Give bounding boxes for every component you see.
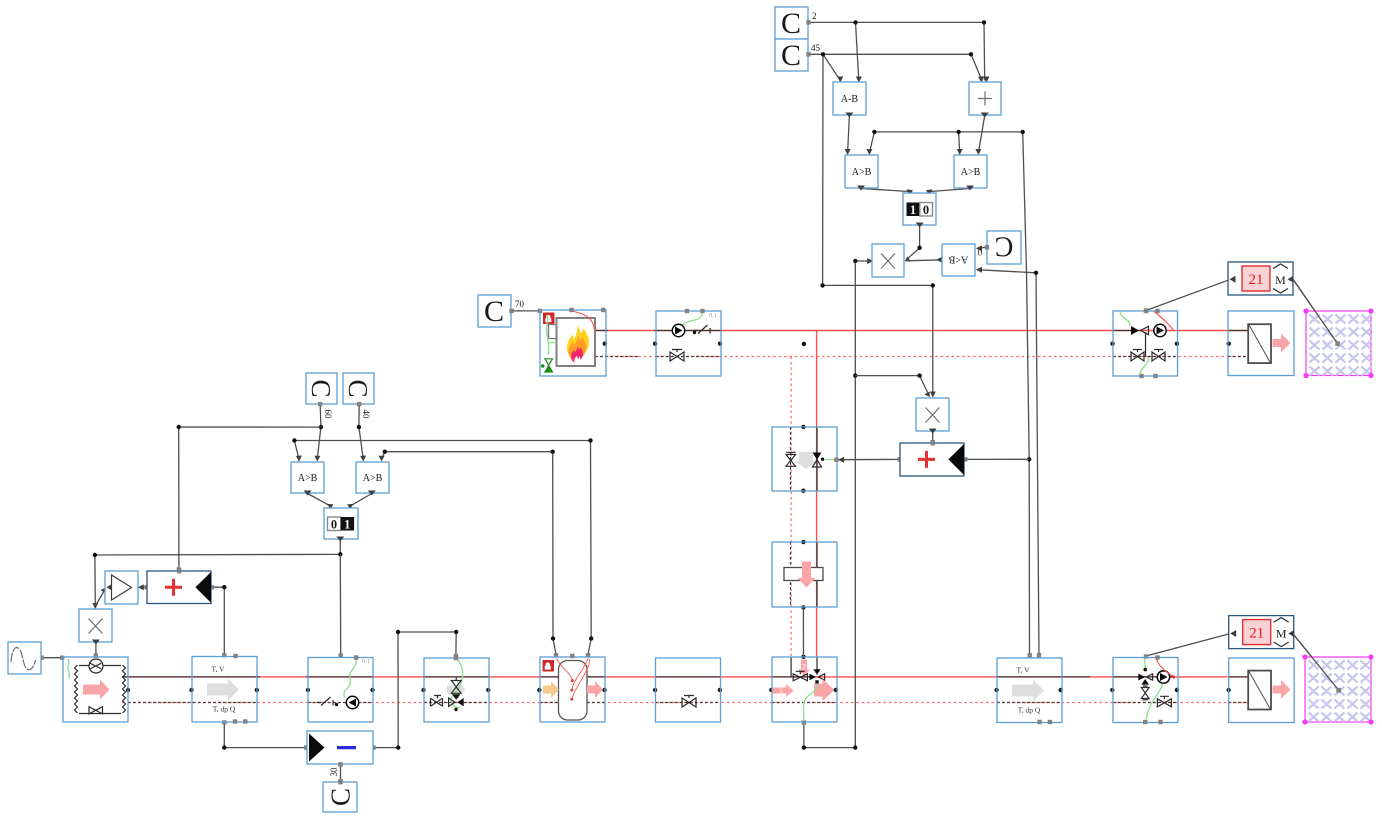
node hydraulic port dots bottom row bbox=[126, 688, 1231, 692]
subtract block minus with input arrow bbox=[307, 731, 373, 767]
wire multiplier-top left input from mix-c riser bbox=[855, 260, 871, 262]
svg-text:1: 1 bbox=[344, 517, 350, 531]
wire black overlay supply mix1 bbox=[1112, 330, 1141, 332]
wire A>B-left2 output to switch 0|1 bbox=[308, 494, 330, 506]
multiplier X left bbox=[79, 609, 112, 645]
wire black dashed return overlay TV1 span bbox=[128, 702, 258, 704]
wire black dashed vertical overlay pumpv bbox=[790, 542, 792, 607]
svg-text:0: 0 bbox=[977, 247, 982, 257]
wire A>B-left output to switch 1|0 bbox=[861, 189, 909, 192]
svg-text:C: C bbox=[781, 39, 801, 72]
svg-text:C: C bbox=[781, 7, 801, 40]
wire supply pipe vertical drop (x=816.6) bbox=[816, 331, 818, 658]
node hydraulic port dots top row bbox=[603, 342, 1231, 346]
constant C2 bbox=[775, 7, 817, 40]
wire tank sensor1 riser to A>B-right2 input B bbox=[382, 452, 554, 639]
wire return pipe top row (dashed) bbox=[595, 356, 1248, 358]
wire plus-left output to gain bbox=[139, 586, 147, 588]
room block hatch1 bbox=[1294, 280, 1374, 378]
svg-text:0.1: 0.1 bbox=[709, 312, 717, 319]
wire black dashed return overlay radiator1 bbox=[1228, 356, 1249, 358]
wire switch 0|1 output down and left bbox=[95, 540, 340, 608]
wire plus-top output to A>B-right input B bbox=[978, 116, 984, 154]
pump rect block pumpv bbox=[772, 542, 837, 607]
comparator A>B right bbox=[954, 155, 987, 191]
svg-text:1: 1 bbox=[779, 687, 783, 695]
constant C40 rotated bbox=[343, 373, 374, 419]
wire black dashed return overlay valve2 bbox=[655, 702, 721, 704]
wire C0 to A<B input bbox=[977, 247, 986, 248]
wire room2 sensor to thermostat2 right bbox=[1294, 635, 1339, 691]
svg-text:T, dp Q: T, dp Q bbox=[1018, 706, 1041, 715]
svg-text:C: C bbox=[306, 379, 336, 397]
svg-text:2: 2 bbox=[802, 662, 806, 671]
wire black overlay supply radiator1 bbox=[1228, 330, 1249, 332]
wire black dashed return overlay TV2 bbox=[997, 702, 1062, 704]
wire black dashed return overlay valve1 bbox=[424, 702, 489, 704]
svg-text:21: 21 bbox=[1249, 626, 1264, 642]
svg-text:A>B: A>B bbox=[363, 473, 383, 484]
wire black dashed return overlay mix1 bbox=[1113, 356, 1177, 358]
wire branch to A>B-right input A bbox=[959, 132, 960, 153]
svg-text:0: 0 bbox=[923, 203, 929, 217]
subtract block A-B bbox=[833, 82, 866, 118]
wire TV1 sensor to plus-left right input bbox=[212, 587, 225, 655]
room block hatch2 bbox=[1294, 635, 1374, 725]
wire plus-main right input from TV2 riser bbox=[965, 458, 1029, 460]
wire black overlay supply valve1 bbox=[423, 676, 490, 678]
wire room1 sensor to thermostat1 right bbox=[1294, 280, 1338, 344]
wire tank sensor2 riser to A>B-left2 input A bbox=[294, 441, 591, 639]
wire minus-block right output to valve1 top bbox=[374, 632, 457, 748]
wire black solid vertical mix-c return stub bbox=[790, 658, 792, 678]
wire black overlay supply radiator2 bbox=[1228, 676, 1249, 678]
svg-text:C: C bbox=[343, 379, 373, 397]
svg-text:C: C bbox=[326, 788, 356, 806]
wire long vertical from y=131.9 down to TV2 top port 1 bbox=[1023, 132, 1030, 656]
wire C60 output down bbox=[317, 405, 321, 460]
boiler block bbox=[540, 308, 606, 376]
comparator A>B left2 bbox=[291, 462, 324, 496]
wire multiplier-left output to heat pump top bbox=[95, 643, 97, 656]
wire black dashed return overlay pump1 bbox=[308, 702, 373, 704]
wire supply pipe bottom row bbox=[122, 676, 1248, 678]
svg-text:A<B: A<B bbox=[948, 254, 968, 265]
wire riser vertical x=855.3 from mix-c bottom bbox=[804, 261, 855, 748]
constant C45 bbox=[775, 39, 821, 72]
wire multiplier-low output to plus-main top bbox=[932, 432, 934, 443]
gain triangle block bbox=[105, 571, 138, 604]
wire branch riser to multiplier-low bbox=[855, 376, 929, 395]
wire C45 long branch down to multiplier-low bbox=[823, 54, 933, 395]
svg-text:45: 45 bbox=[811, 43, 821, 53]
pump block valve3 bbox=[656, 309, 721, 376]
wire branch to gain input bbox=[95, 589, 105, 607]
svg-text:C: C bbox=[995, 231, 1014, 262]
wire A<B output to multiplier-top input bbox=[906, 260, 943, 261]
comparator A>B left bbox=[845, 155, 878, 191]
wire A-B output to A>B-left input A bbox=[848, 116, 850, 154]
wire plus-main left output to checkv right port bbox=[838, 458, 900, 460]
svg-text:21: 21 bbox=[1249, 272, 1264, 288]
wire black overlay supply mix2 left bbox=[1112, 676, 1174, 678]
svg-text:0: 0 bbox=[331, 517, 337, 531]
valve block valve1 (diverter with bypass) bbox=[424, 656, 489, 722]
wire sine to heat pump left bbox=[42, 657, 63, 659]
wire TV2 sensor 2 vertical up to A<B input bbox=[977, 270, 1039, 656]
wire black dashed return overlay mix2 bbox=[1113, 702, 1177, 704]
valve block valve2 bbox=[656, 658, 721, 722]
comparator A<B flipped bbox=[942, 244, 975, 276]
wire black overlay supply boiler exit bbox=[594, 330, 608, 332]
add block plus-main with input arrow bbox=[900, 441, 964, 476]
measurement block TV1 bbox=[192, 654, 257, 724]
svg-text:70: 70 bbox=[515, 299, 525, 309]
wire mix1 top port to thermostat1 bbox=[1146, 279, 1231, 310]
wire black overlay supply valve2 bbox=[655, 676, 721, 678]
svg-text:60: 60 bbox=[323, 410, 333, 420]
wire C70 to boiler top bbox=[512, 310, 540, 312]
wire branch to A>B-left input B bbox=[869, 132, 874, 153]
wire return pipe bottom row bbox=[122, 702, 1248, 704]
svg-text:M: M bbox=[1276, 627, 1287, 641]
wire black dashed return overlay boiler exit bbox=[595, 356, 640, 358]
svg-text:T, V: T, V bbox=[211, 665, 225, 674]
wire A>B-right output to switch 1|0 bbox=[930, 189, 970, 192]
svg-text:C: C bbox=[484, 295, 504, 328]
wire sensor bus horizontal y=131.9 bbox=[874, 131, 1022, 133]
add block plus-left with input arrow bbox=[147, 569, 211, 604]
wire black overlay supply valve3 bbox=[654, 330, 722, 332]
wire switch 1|0 output down bbox=[907, 226, 920, 260]
wire black overlay supply heat-pump to TV1 bbox=[122, 676, 260, 678]
wire C60 branch to plus-left top bbox=[179, 427, 321, 570]
wire black overlay supply mix-c bbox=[771, 676, 810, 678]
radiator block rad1 bbox=[1228, 311, 1294, 376]
wire black dashed vertical overlay checkv bbox=[790, 427, 792, 491]
pump block pump1 bbox=[308, 655, 373, 722]
thermostat 21M room2 bbox=[1229, 616, 1295, 649]
wire branch switch 0|1 down to pump1 top port bbox=[339, 554, 341, 655]
wire branch C45 to plus input bbox=[971, 54, 982, 80]
svg-text:A>B: A>B bbox=[852, 167, 872, 178]
measurement block TV2 bbox=[997, 658, 1062, 724]
manual switch 1|0 bbox=[903, 193, 936, 228]
svg-text:0.1: 0.1 bbox=[362, 658, 370, 665]
mixing unit block mix-c bbox=[772, 657, 837, 722]
svg-text:A>B: A>B bbox=[298, 473, 318, 484]
wire C2 output horizontal bbox=[809, 21, 985, 23]
wire black overlay supply pump1 bbox=[306, 676, 374, 678]
wire C30 to minus-block bottom bbox=[340, 765, 342, 782]
heat pump block bbox=[63, 657, 128, 722]
wire black connector pumpv to mix-c bbox=[802, 607, 804, 656]
wire return pipe vertical drop (x=791) bbox=[790, 357, 792, 659]
wire branch C2 to A-B input B bbox=[856, 22, 859, 80]
svg-text:A-B: A-B bbox=[841, 94, 859, 105]
wire branch C2 to plus input bbox=[983, 22, 986, 80]
add block U+ bbox=[969, 82, 1001, 118]
multiplier X top bbox=[872, 244, 904, 277]
node on C2 wire bbox=[853, 20, 857, 24]
node on C45 wire bbox=[821, 52, 825, 56]
node dots on sensor bus bbox=[872, 130, 876, 134]
mixing pump block mix2 bbox=[1113, 655, 1178, 724]
wire black overlay supply tank left bbox=[539, 676, 559, 678]
wire black overlay supply TV2 bbox=[996, 676, 1090, 678]
wire black overlay supply tank right bbox=[587, 676, 607, 678]
wire supply pipe top row (boiler to radiator1) bbox=[594, 330, 1248, 332]
svg-text:40: 40 bbox=[361, 410, 371, 420]
svg-text:A>B: A>B bbox=[961, 167, 981, 178]
svg-text:T, dp Q: T, dp Q bbox=[213, 705, 236, 714]
storage tank block bbox=[540, 654, 605, 722]
wire TV1 bottom port to minus-block left bbox=[224, 723, 306, 748]
wire branch C45 to A-B input A bbox=[823, 54, 840, 80]
wire C40 output down bbox=[359, 405, 363, 460]
constant C70 bbox=[478, 295, 525, 328]
wire black dashed return overlay tank bbox=[540, 702, 558, 704]
wire black dashed return overlay mix-c bbox=[772, 702, 837, 704]
svg-text:2: 2 bbox=[812, 11, 817, 21]
PIPES LAYER bbox=[122, 331, 1249, 703]
wire mix-c port connection dots column bbox=[802, 342, 806, 346]
wire A>B-right2 output to switch 0|1 bbox=[351, 494, 372, 506]
constant C0 flipped bbox=[977, 231, 1021, 265]
svg-text:T, V: T, V bbox=[1016, 666, 1030, 675]
mixing pump block mix1 bbox=[1113, 309, 1178, 378]
wire black dashed return overlay radiator2 bbox=[1228, 702, 1249, 704]
svg-text:M: M bbox=[1275, 273, 1286, 287]
wire mix2 top port to thermostat2 bbox=[1146, 634, 1231, 657]
comparator A>B right2 bbox=[356, 462, 389, 496]
svg-text:1: 1 bbox=[910, 203, 916, 217]
thermostat 21M room1 bbox=[1228, 262, 1294, 295]
svg-text:30: 30 bbox=[329, 767, 339, 777]
check valve block checkv bbox=[772, 427, 839, 491]
wire black solid vertical check-valve line in checkv bbox=[816, 427, 818, 491]
manual switch 0|1 flipped bbox=[324, 508, 358, 542]
sine wave source bbox=[8, 642, 41, 674]
wire black solid vertical in pumpv bbox=[816, 542, 818, 607]
wire black dashed return overlay valve3 bbox=[656, 356, 721, 358]
constant C30 rotated bbox=[323, 767, 357, 812]
wire C45 output horizontal bbox=[809, 53, 972, 55]
multiplier X low bbox=[916, 398, 949, 434]
radiator block rad2 bbox=[1229, 658, 1295, 723]
constant C60 rotated bbox=[306, 373, 337, 419]
